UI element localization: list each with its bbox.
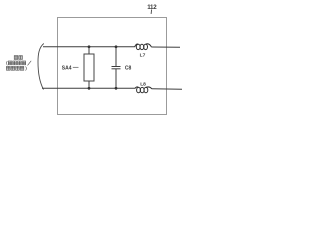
svg-text:C8: C8 xyxy=(125,65,132,71)
svg-text:112: 112 xyxy=(147,4,157,11)
svg-text:SA4: SA4 xyxy=(62,65,72,71)
svg-text:L7: L7 xyxy=(140,52,146,58)
svg-text:L8: L8 xyxy=(140,81,146,87)
